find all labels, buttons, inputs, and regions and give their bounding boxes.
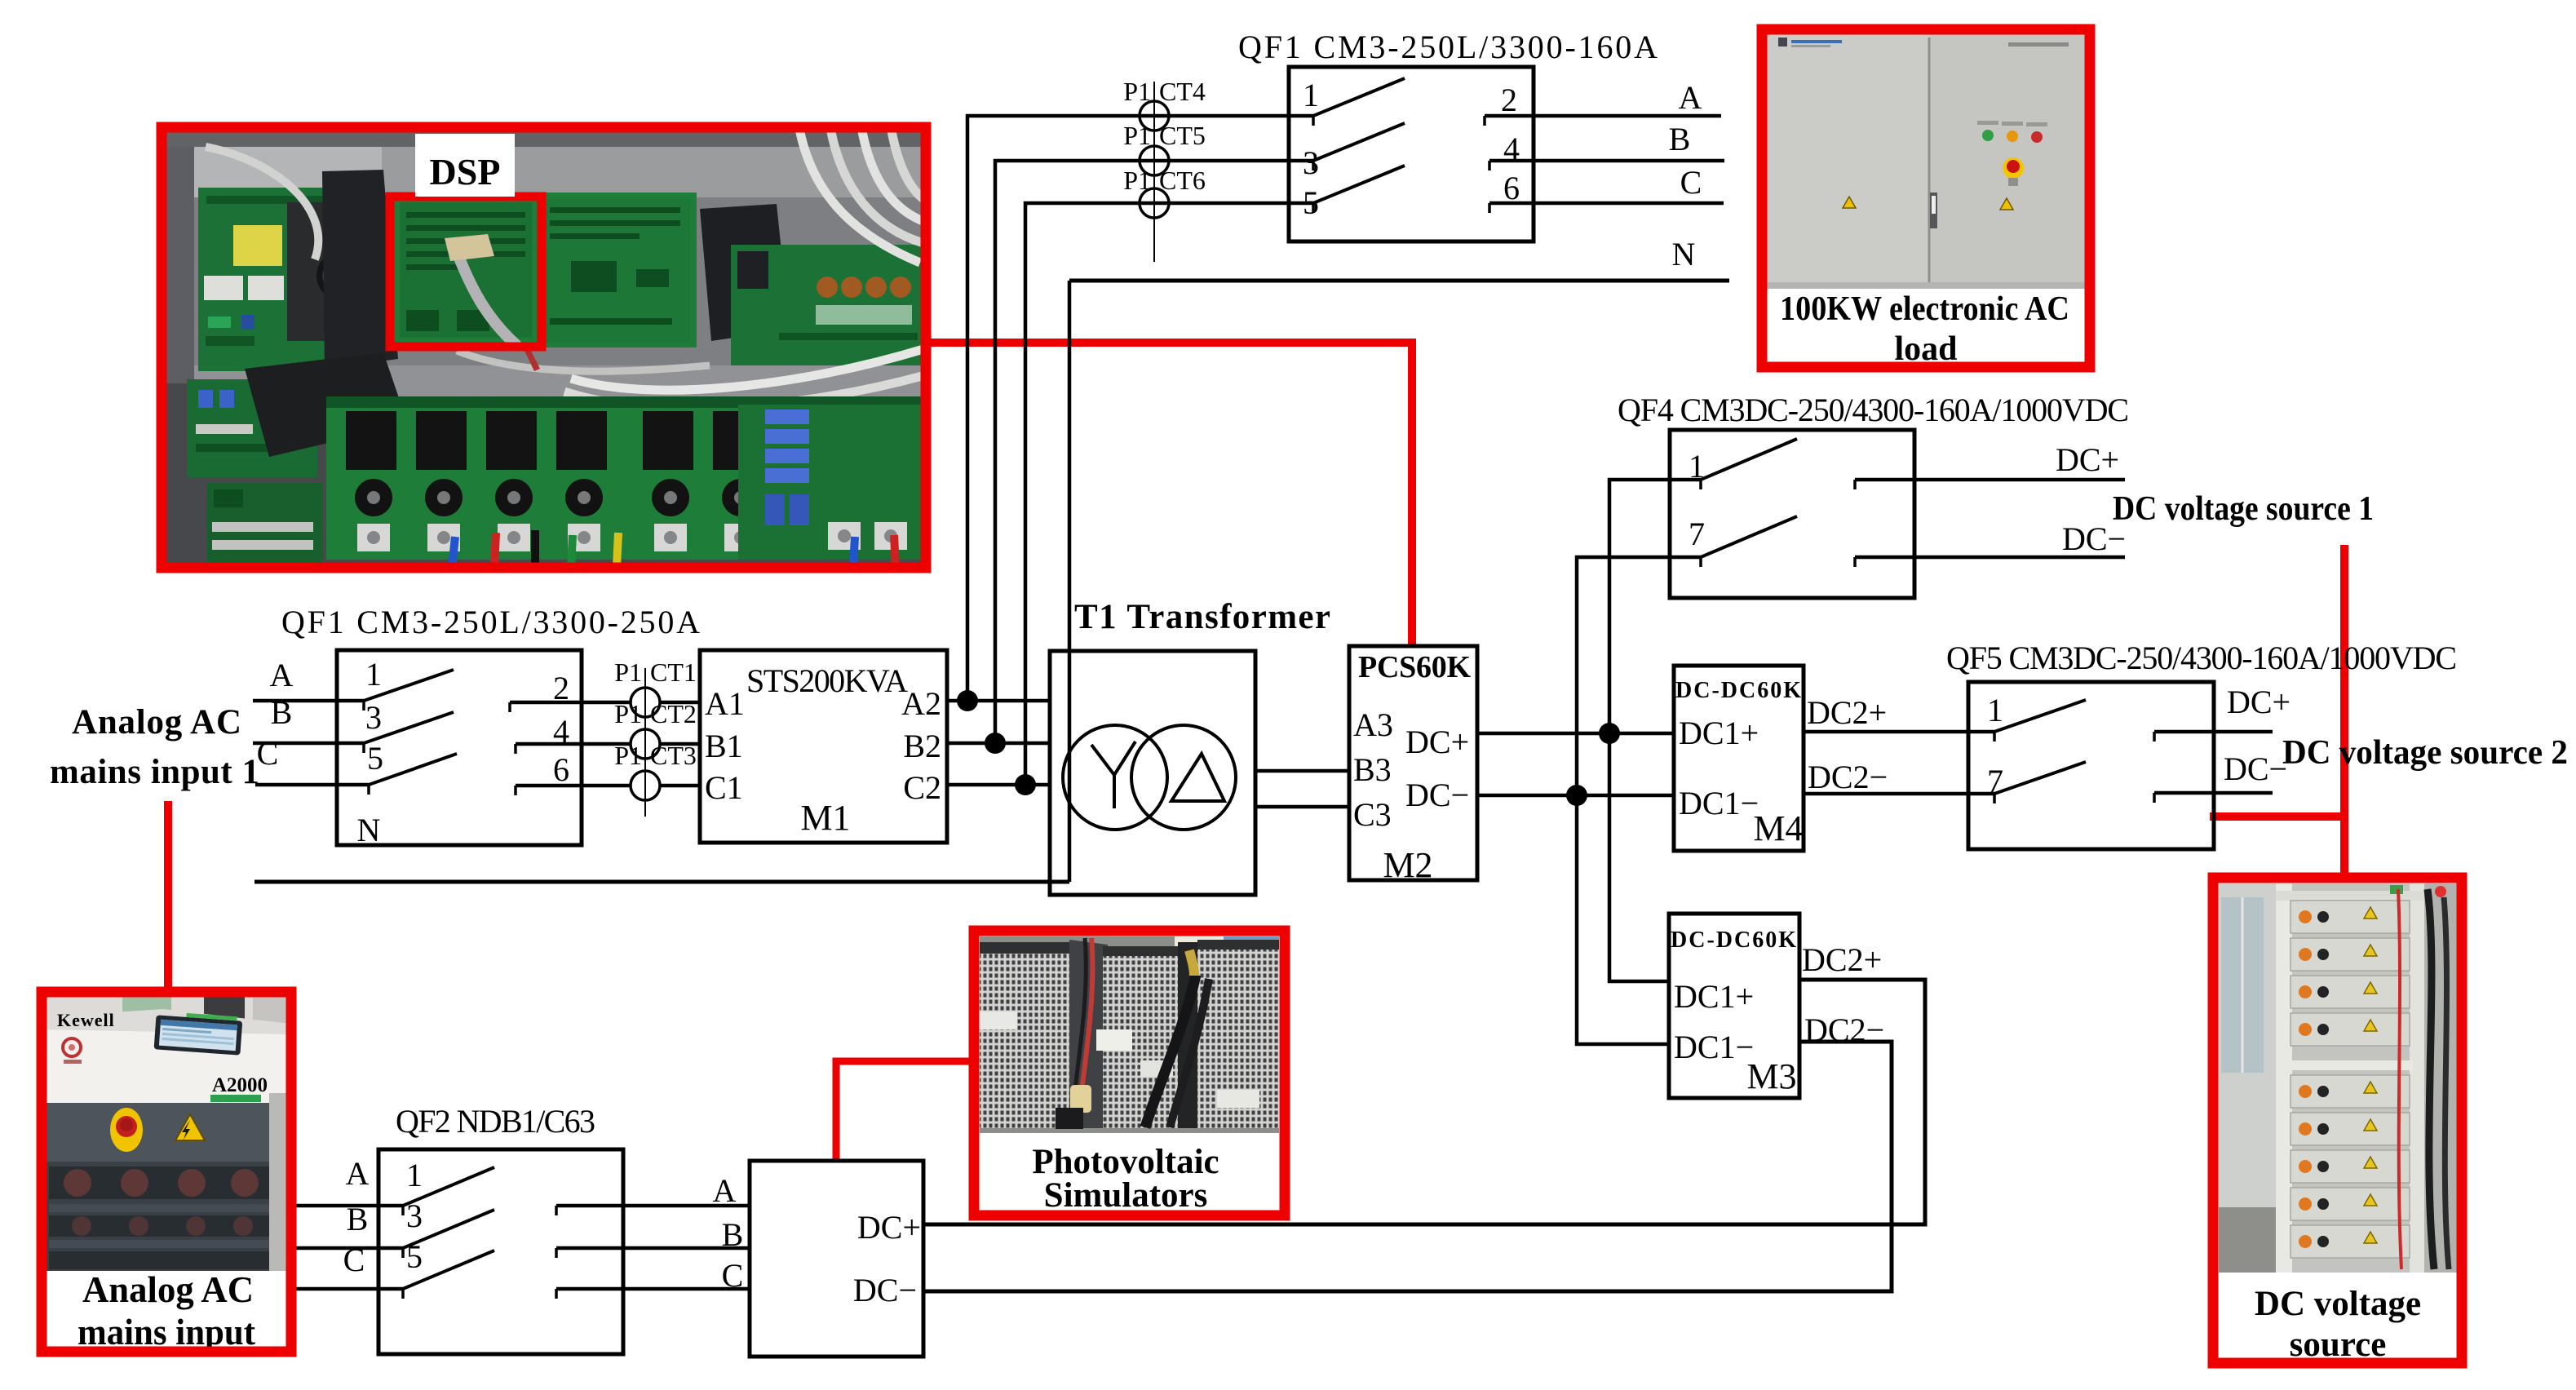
svg-text:DC1+: DC1+	[1674, 978, 1754, 1015]
QF1 load pole 1	[1303, 77, 1405, 126]
svg-text:DC1−: DC1−	[1679, 785, 1759, 821]
wire: PCS60K DC- bus	[1477, 794, 1674, 798]
CT CT3	[631, 751, 700, 817]
QF4 pole 7 blade	[1689, 516, 1797, 557]
CT CT5	[1140, 126, 1169, 218]
svg-text:N: N	[1672, 236, 1696, 272]
svg-text:5: 5	[367, 740, 383, 777]
red link: PV simulators photo to PV box	[836, 1061, 972, 1162]
svg-text:DC+: DC+	[2227, 684, 2291, 720]
QF1 pole 4 output wire	[516, 713, 631, 754]
svg-text:Analog AC: Analog AC	[72, 703, 241, 741]
wire: DC+ drop to M3 DC1+	[1609, 733, 1669, 981]
QF1 load pole 6 output	[1489, 170, 1724, 213]
svg-text:Kewell: Kewell	[57, 1010, 115, 1030]
svg-text:M1: M1	[800, 798, 850, 838]
svg-text:Analog AC: Analog AC	[82, 1268, 254, 1310]
svg-text:A2: A2	[901, 685, 941, 722]
QF4 DC- output wire	[1855, 520, 2126, 567]
svg-text:1: 1	[365, 656, 382, 693]
svg-text:100KW electronic AC: 100KW electronic AC	[1780, 290, 2069, 328]
node A (mains input)	[270, 657, 294, 693]
svg-text:DC+: DC+	[1405, 724, 1469, 760]
red link: DC voltage source 1/2 to battery photo	[2210, 545, 2348, 879]
svg-text:A: A	[270, 657, 294, 693]
svg-text:B3: B3	[1353, 751, 1392, 788]
svg-text:CT2: CT2	[650, 699, 697, 728]
svg-text:QF4 CM3DC-250/4300-160A/1000VD: QF4 CM3DC-250/4300-160A/1000VDC	[1618, 392, 2129, 428]
svg-text:DC−: DC−	[1405, 777, 1469, 813]
CT CT5 label	[1123, 121, 1206, 150]
svg-text:CT1: CT1	[650, 657, 697, 687]
transformer T1 label	[1074, 598, 1330, 636]
svg-text:M3: M3	[1746, 1056, 1796, 1096]
photo: DC voltage source battery rack	[2219, 883, 2457, 1358]
QF1 pole 2 output wire	[510, 670, 631, 712]
wire: DC- riser to QF4 pole 7	[1577, 557, 1701, 795]
transformer T1	[1050, 651, 1255, 895]
breaker QF4 title	[1618, 392, 2129, 428]
svg-text:CT3: CT3	[650, 741, 697, 770]
QF5 DC- output wire	[2154, 750, 2287, 803]
svg-text:M4: M4	[1753, 808, 1803, 848]
QF1 pole 1 blade	[364, 656, 454, 701]
svg-text:P1: P1	[614, 657, 642, 687]
wire: C2 to transformer	[947, 783, 1051, 787]
QF5 pole 1 blade	[1987, 692, 2086, 732]
wire: M3 DC2- to PV DC- bus	[923, 1012, 1892, 1291]
node B (QF2 in)	[347, 1201, 369, 1237]
CT CT2	[631, 710, 700, 775]
converter DC-DC60K M4 box	[1674, 666, 1804, 851]
svg-text:DC voltage source 2: DC voltage source 2	[2282, 734, 2568, 772]
svg-text:QF2 NDB1/C63: QF2 NDB1/C63	[396, 1103, 595, 1140]
wire: M3 DC2+ to PV DC+ bus	[923, 941, 1925, 1224]
svg-text:C: C	[722, 1257, 744, 1294]
svg-text:A: A	[713, 1172, 737, 1209]
wire: QF2 B output to PV simulator	[556, 1216, 750, 1258]
svg-text:B: B	[1669, 121, 1691, 157]
CT CT4	[1140, 82, 1169, 173]
svg-text:mains input 1: mains input 1	[50, 753, 259, 791]
svg-text:1: 1	[1987, 692, 2003, 728]
PV simulator box	[750, 1161, 923, 1357]
wire: C2 riser to CT6	[1025, 203, 1313, 785]
junction C2	[1015, 774, 1036, 795]
breaker QF5 box	[1968, 682, 2214, 849]
svg-text:1: 1	[1303, 77, 1319, 113]
svg-text:DC voltage source 1: DC voltage source 1	[2113, 490, 2374, 528]
junction DC+	[1599, 723, 1620, 744]
svg-text:A: A	[1679, 79, 1702, 116]
red link: Analog AC mains input 1 to Kewell photo	[164, 801, 172, 990]
svg-text:6: 6	[553, 751, 569, 788]
svg-text:DSP: DSP	[430, 151, 501, 193]
QF1 load pole 4 output	[1489, 131, 1724, 170]
AC load photo red frame	[1762, 29, 2090, 367]
wire: PCS60K DC+ bus	[1477, 732, 1674, 736]
svg-text:C: C	[257, 735, 279, 772]
svg-text:Photovoltaic: Photovoltaic	[1032, 1143, 1219, 1181]
svg-text:CT5: CT5	[1159, 121, 1206, 150]
svg-text:7: 7	[1689, 516, 1705, 552]
label: DC voltage source 2	[2282, 734, 2568, 772]
converter DC-DC60K M3 box	[1669, 914, 1799, 1098]
wire: A2 to transformer	[947, 699, 1051, 703]
svg-text:C2: C2	[903, 769, 941, 806]
svg-text:Simulators: Simulators	[1044, 1176, 1208, 1215]
QF1 load pole 2 output	[1485, 82, 1721, 126]
photo: DSP converter interior	[162, 126, 930, 568]
CT CT1 label	[614, 657, 697, 687]
wire: QF2 C output to PV simulator	[556, 1257, 750, 1299]
QF1 load pole 3	[1303, 123, 1405, 181]
STS M1 box	[700, 650, 947, 843]
svg-text:C: C	[1680, 164, 1702, 201]
junction A2	[957, 690, 978, 711]
QF2 pole 3 blade	[403, 1197, 494, 1248]
svg-text:B1: B1	[705, 728, 743, 764]
breaker QF1 (mains) title	[281, 604, 700, 640]
svg-text:QF5 CM3DC-250/4300-160A/1000VD: QF5 CM3DC-250/4300-160A/1000VDC	[1946, 640, 2457, 676]
QF1 pole 3 blade	[364, 699, 454, 743]
node N (load side)	[1672, 236, 1696, 272]
CT CT6	[1140, 170, 1169, 262]
DSP photo red frame	[162, 127, 926, 568]
CT CT3 label	[614, 741, 697, 770]
node B (AC load)	[1669, 121, 1691, 157]
svg-text:DC2+: DC2+	[1802, 941, 1882, 978]
node A (AC load)	[1679, 79, 1702, 116]
svg-text:3: 3	[1303, 144, 1319, 181]
label: Analog AC mains input 1	[50, 703, 259, 791]
CT CT2 label	[614, 699, 697, 728]
breaker QF1 (load) title	[1238, 29, 1658, 65]
breaker QF4 box	[1670, 430, 1914, 598]
label: DC voltage source 1	[2113, 490, 2374, 528]
DSP inner red highlight box	[390, 197, 542, 347]
svg-text:T1 Transformer: T1 Transformer	[1074, 598, 1330, 636]
PV simulators photo red frame	[974, 931, 1285, 1215]
svg-text:DC voltage: DC voltage	[2255, 1285, 2421, 1323]
red link: DSP photo to PCS60K	[931, 343, 1412, 648]
wire: M4 DC2+ to QF5 pole 1	[1804, 694, 1994, 741]
svg-text:5: 5	[406, 1238, 423, 1275]
wire: A2 riser to CT4	[967, 116, 1313, 701]
DSP label	[415, 134, 515, 197]
svg-text:DC+: DC+	[2056, 441, 2119, 478]
wire: neutral top run	[1069, 279, 1729, 283]
photo: Kewell A2000 analog AC source	[42, 993, 290, 1352]
svg-text:DC1−: DC1−	[1674, 1029, 1754, 1065]
DC voltage source photo red frame	[2213, 878, 2462, 1363]
svg-text:M2: M2	[1383, 845, 1432, 885]
Kewell photo red frame	[42, 992, 291, 1352]
svg-text:mains input: mains input	[77, 1311, 256, 1352]
svg-text:3: 3	[406, 1197, 423, 1234]
svg-text:A1: A1	[705, 685, 745, 722]
node N (mains)	[357, 812, 381, 848]
svg-text:N: N	[357, 812, 381, 848]
CT CT4 label	[1123, 77, 1206, 106]
QF4 pole 1 blade	[1689, 439, 1797, 485]
node C (AC load)	[1680, 164, 1702, 201]
wire: M4 DC2- to QF5 pole 7	[1804, 759, 1994, 803]
svg-text:C3: C3	[1353, 796, 1392, 833]
breaker QF1 (mains) box	[337, 650, 582, 845]
wire: phase C into QF1 pole 5	[255, 785, 369, 795]
CT CT1	[631, 668, 700, 733]
converter PCS60K M2 box	[1349, 646, 1477, 885]
wire: B2 to transformer	[947, 741, 1051, 746]
breaker QF5 title	[1946, 640, 2457, 676]
svg-text:CT6: CT6	[1159, 166, 1206, 195]
svg-text:CT4: CT4	[1159, 77, 1206, 106]
svg-text:A3: A3	[1353, 706, 1393, 743]
QF1 load pole 5	[1303, 166, 1405, 221]
QF2 pole 1 blade	[403, 1157, 494, 1206]
photo: 100KW electronic AC load cabinet	[1762, 29, 2090, 368]
svg-text:B: B	[722, 1216, 744, 1253]
wire: DC- drop to M3 DC1-	[1577, 795, 1669, 1044]
junction B2	[985, 733, 1006, 754]
svg-text:P1: P1	[1123, 121, 1151, 150]
wire: Kewell B to QF2 pole 3	[296, 1248, 403, 1258]
wire: T1 to PCS60K lower	[1255, 805, 1349, 809]
svg-text:1: 1	[406, 1157, 423, 1193]
QF5 DC+ output wire	[2154, 684, 2291, 741]
svg-text:DC2+: DC2+	[1807, 694, 1887, 731]
breaker QF1 (load) box	[1289, 67, 1534, 241]
QF1 pole 6 output wire	[516, 751, 631, 795]
svg-text:STS200KVA: STS200KVA	[746, 662, 908, 699]
junction DC-	[1566, 785, 1587, 806]
svg-text:PCS60K: PCS60K	[1358, 650, 1471, 684]
svg-text:P1: P1	[614, 741, 642, 770]
QF4 DC+ output wire	[1855, 441, 2125, 489]
wire: phase B into QF1 pole 3	[253, 743, 364, 753]
wire: T1 to PCS60K upper	[1255, 769, 1349, 773]
svg-text:A: A	[346, 1155, 370, 1192]
wire: Kewell C to QF2 pole 5	[296, 1289, 403, 1299]
svg-text:DC1+: DC1+	[1679, 715, 1759, 751]
breaker QF2 box	[378, 1149, 623, 1354]
wire: QF2 A output to PV simulator	[556, 1172, 750, 1215]
QF5 pole 7 blade	[1987, 762, 2086, 799]
svg-text:P1: P1	[614, 699, 642, 728]
svg-text:DC−: DC−	[853, 1272, 917, 1308]
CT CT6 label	[1123, 166, 1206, 195]
svg-text:DC2−: DC2−	[1808, 759, 1888, 795]
QF1 pole 5 blade	[367, 740, 457, 785]
node A (QF2 in)	[346, 1155, 370, 1192]
svg-text:B2: B2	[903, 728, 941, 764]
node C (QF2 in)	[343, 1242, 365, 1278]
wire: neutral bus (bottom)	[255, 880, 1069, 884]
wire: B2 riser to CT5	[995, 161, 1313, 743]
node C (mains input)	[257, 735, 279, 772]
wire: phase A into QF1 pole 1	[253, 701, 364, 710]
svg-text:A2000: A2000	[212, 1074, 268, 1096]
svg-text:2: 2	[1501, 82, 1517, 118]
svg-text:6: 6	[1503, 170, 1520, 206]
wire: Kewell A to QF2 pole 1	[296, 1206, 403, 1215]
svg-text:DC+: DC+	[857, 1209, 921, 1246]
wire: neutral riser	[1068, 281, 1072, 882]
node B (mains input)	[271, 694, 293, 731]
svg-text:3: 3	[365, 699, 382, 736]
svg-text:DC−: DC−	[2224, 750, 2287, 787]
svg-text:C1: C1	[705, 769, 743, 806]
breaker QF2 title	[396, 1103, 595, 1140]
wire: DC+ riser to QF4 pole 1	[1609, 480, 1701, 733]
QF2 pole 5 blade	[403, 1238, 494, 1289]
